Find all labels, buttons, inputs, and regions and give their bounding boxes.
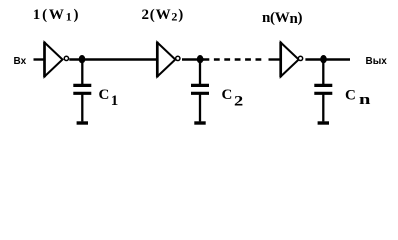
svg-text:C: C xyxy=(222,87,233,103)
ground (below C2) xyxy=(194,121,205,124)
svg-text:C: C xyxy=(345,87,356,103)
wire input xyxy=(34,58,46,60)
wire U1 output to U2 input xyxy=(69,58,158,60)
capacitor Cn xyxy=(314,60,332,122)
inverter U2 xyxy=(157,42,180,77)
wire U2 output to junction 2 xyxy=(182,58,204,60)
inverter U3 xyxy=(281,42,303,77)
ground (below C1) xyxy=(77,121,88,124)
svg-text:n: n xyxy=(359,92,371,108)
svg-text:1: 1 xyxy=(111,93,119,109)
svg-text:Вх: Вх xyxy=(14,56,27,67)
wire solid into U3 xyxy=(269,58,282,60)
junction node 2 xyxy=(197,55,204,63)
inverter U1 xyxy=(45,42,69,77)
svg-text:n(Wn): n(Wn) xyxy=(262,10,302,27)
svg-text:C: C xyxy=(99,87,110,103)
wire U3 output to Вых xyxy=(305,58,350,60)
svg-text:Вых: Вых xyxy=(366,56,388,67)
capacitor C1 xyxy=(73,60,91,122)
svg-text:2(W2): 2(W2) xyxy=(142,7,185,24)
junction node 3 xyxy=(320,55,327,63)
junction node 1 xyxy=(79,55,86,63)
svg-text:1(W1): 1(W1) xyxy=(33,7,81,24)
capacitor C2 xyxy=(191,60,209,122)
svg-text:2: 2 xyxy=(234,94,243,110)
wire dashed (omitted stages) xyxy=(204,58,263,60)
ground (below Cn) xyxy=(318,121,329,124)
